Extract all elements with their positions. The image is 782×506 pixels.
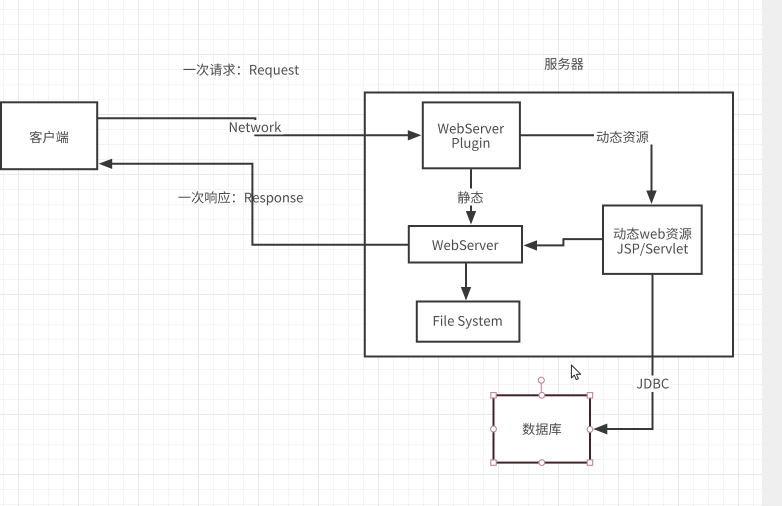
label WebServer: [432, 239, 498, 250]
box 动态web资源 JSP/Servlet: [603, 206, 702, 274]
label 静态: [458, 191, 483, 203]
label bg Network: [228, 120, 284, 135]
label WebServer (plugin line 1): [438, 123, 504, 134]
label 一次请求：Request: [183, 64, 299, 78]
box 客户端 (client): [1, 102, 97, 169]
label 数据库: [523, 423, 562, 435]
wire request: client to WebServer Plugin: [98, 118, 410, 135]
wire response: WebServer to client: [111, 164, 409, 245]
label 服务器: [545, 58, 584, 70]
label 一次响应：Response: [178, 191, 302, 205]
wire JDBC: JSP box down then left to database: [607, 274, 653, 429]
right scrollbar strip: [762, 0, 782, 506]
box WebServer Plugin: [423, 102, 520, 168]
rotation handle of selection: [540, 383, 542, 391]
selection midpoint handles: [539, 392, 545, 398]
label 动态web资源: [614, 228, 692, 240]
label JSP/Servlet: [617, 243, 688, 256]
box File System: [417, 302, 520, 342]
label 客户端: [30, 131, 69, 143]
box 数据库 (selected database): [494, 395, 591, 462]
box 服务器 outer server container: [365, 93, 733, 357]
label bg JDBC: [634, 376, 671, 393]
label bg 动态资源: [594, 129, 655, 145]
label Network: [230, 121, 281, 132]
label Plugin: [453, 137, 490, 151]
label File System: [434, 315, 502, 329]
label 动态资源: [597, 131, 649, 143]
wire dynamic resource: Plugin right then down to JSP box: [520, 135, 652, 192]
wire static: Plugin down to WebServer: [470, 169, 472, 213]
mouse cursor: [571, 365, 580, 380]
selection corner handles: [491, 393, 496, 398]
box WebServer: [409, 226, 522, 263]
wire WebServer down to File System: [465, 263, 467, 290]
wire JSP box to WebServer: [536, 239, 603, 245]
label bg 静态: [455, 189, 486, 206]
label JDBC: [637, 379, 669, 389]
